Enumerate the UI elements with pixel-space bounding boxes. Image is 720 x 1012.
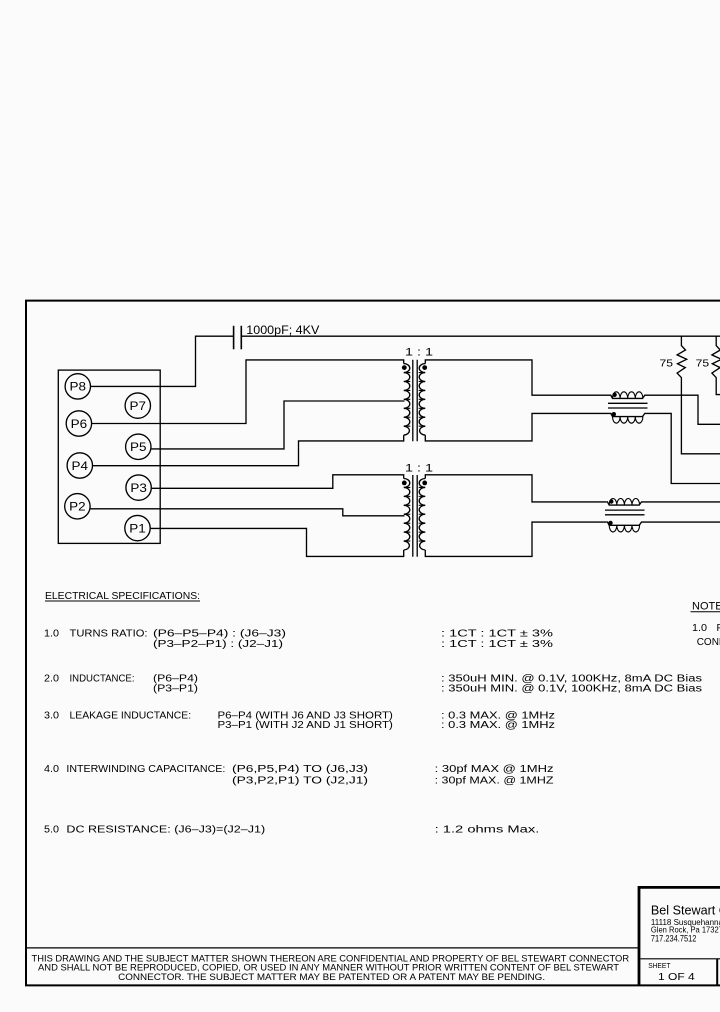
transformer T1 primary winding <box>404 364 410 436</box>
svg-text:CONNECT: CONNECT <box>697 637 720 648</box>
svg-text:5.0: 5.0 <box>44 825 59 836</box>
wire L1 bottom out with jog to right edge <box>647 413 720 483</box>
notes heading (clipped at right edge) <box>691 601 720 649</box>
wire L2 top out to right edge <box>644 501 720 503</box>
svg-text:PIN: PIN <box>717 623 720 634</box>
svg-text:DC RESISTANCE: (J6–J3)=(J2–J1): DC RESISTANCE: (J6–J3)=(J2–J1) <box>66 825 265 836</box>
disclaimer text <box>32 953 630 983</box>
svg-text:: 0.3 MAX. @ 1MHz: : 0.3 MAX. @ 1MHz <box>441 720 555 731</box>
connector J box <box>58 370 160 543</box>
wire T1 secondary top to output <box>425 360 610 395</box>
wire L1 top out with jog to right edge <box>647 395 720 424</box>
pin P5 <box>126 434 151 459</box>
sheet cell divider line <box>640 958 720 960</box>
svg-text:P3: P3 <box>130 483 147 495</box>
svg-text:: 30pf MAX. @ 1MHZ: : 30pf MAX. @ 1MHZ <box>435 776 554 787</box>
wire T2 secondary bottom to output <box>425 522 606 556</box>
svg-text:717.234.7512: 717.234.7512 <box>651 934 697 944</box>
choke L1 top dot <box>612 393 616 397</box>
wire P4 to T1 primary bottom <box>93 435 404 466</box>
sheet cell right divider <box>716 959 718 985</box>
wire T1 secondary bottom to output <box>425 413 610 441</box>
svg-text:ELECTRICAL SPECIFICATIONS:: ELECTRICAL SPECIFICATIONS: <box>45 591 200 602</box>
transformer T2 secondary polarity dot <box>422 481 427 486</box>
resistor R2 75 ohm <box>712 336 720 394</box>
wire L2 bottom out to right edge <box>644 521 720 523</box>
svg-text:: 1CT : 1CT ± 3%: : 1CT : 1CT ± 3% <box>441 628 553 639</box>
svg-text:INDUCTANCE:: INDUCTANCE: <box>70 673 135 684</box>
transformer T1 primary polarity dot <box>402 365 407 370</box>
svg-text:(P6,P5,P4) TO (J6,J3): (P6,P5,P4) TO (J6,J3) <box>232 764 368 775</box>
svg-text:P6: P6 <box>71 419 88 431</box>
svg-text:: 350uH MIN. @ 0.1V, 100KHz, 8: : 350uH MIN. @ 0.1V, 100KHz, 8mA DC Bias <box>441 684 702 695</box>
svg-text:INTERWINDING CAPACITANCE:: INTERWINDING CAPACITANCE: <box>66 764 225 775</box>
svg-text:LEAKAGE INDUCTANCE:: LEAKAGE INDUCTANCE: <box>70 711 192 722</box>
pin P1 <box>125 515 150 540</box>
svg-text:1.0: 1.0 <box>692 623 707 634</box>
choke L2 top dot <box>609 499 613 503</box>
common-mode choke L2 top winding <box>607 502 644 505</box>
choke L2 bottom winding <box>607 522 644 525</box>
choke L2 bottom dot <box>608 521 612 525</box>
wire P6 to T1 primary top <box>92 360 404 424</box>
svg-text:P3–P1 (WITH J2 AND J1 SHORT): P3–P1 (WITH J2 AND J1 SHORT) <box>218 720 393 731</box>
title block border (thick) <box>639 887 720 985</box>
svg-text:75: 75 <box>660 357 674 369</box>
svg-text:1 : 1: 1 : 1 <box>405 462 433 474</box>
capacitor C1 1000pF 4KV <box>234 326 242 350</box>
svg-text:CONNECTOR. THE SUBJECT MATTER: CONNECTOR. THE SUBJECT MATTER MAY BE PAT… <box>118 972 545 983</box>
svg-text:1 : 1: 1 : 1 <box>405 346 433 358</box>
wire P3 to T2 primary top <box>152 475 404 489</box>
svg-text:1000pF; 4KV: 1000pF; 4KV <box>246 325 319 337</box>
choke L1 core <box>608 403 648 408</box>
svg-text:2.0: 2.0 <box>44 673 59 684</box>
electrical specifications heading <box>44 591 702 836</box>
svg-text:1.0: 1.0 <box>44 628 59 639</box>
svg-text:: 1.2 ohms Max.: : 1.2 ohms Max. <box>435 825 540 836</box>
transformer T1 core <box>413 360 417 442</box>
transformer T2 primary polarity dot <box>402 481 407 486</box>
wire P8 to capacitor <box>91 336 233 386</box>
pin P8 <box>65 374 90 399</box>
svg-text:P4: P4 <box>72 461 89 473</box>
svg-text:P1: P1 <box>129 523 146 535</box>
pin P3 <box>126 475 151 500</box>
choke L2 core <box>605 510 645 515</box>
svg-text:: 30pf MAX @ 1MHz: : 30pf MAX @ 1MHz <box>435 764 554 775</box>
svg-text:P5: P5 <box>130 442 147 454</box>
svg-text:75: 75 <box>696 357 710 369</box>
transformer T1 secondary winding <box>419 364 425 436</box>
svg-text:1 OF 4: 1 OF 4 <box>658 972 695 983</box>
wire P5 to T1 center tap <box>151 401 404 449</box>
svg-text:P7: P7 <box>130 401 147 413</box>
wire T2 secondary top to output <box>425 475 606 502</box>
wire P2 to T2 center tap <box>91 509 405 516</box>
svg-text:P2: P2 <box>69 502 86 514</box>
svg-text:: 1CT : 1CT ± 3%: : 1CT : 1CT ± 3% <box>441 639 553 650</box>
transformer T1 secondary polarity dot <box>422 365 427 370</box>
choke L1 bottom winding <box>610 413 647 416</box>
svg-text:(P3–P2–P1) : (J2–J1): (P3–P2–P1) : (J2–J1) <box>153 639 283 650</box>
svg-text:NOTES:: NOTES: <box>692 601 720 613</box>
pin P6 <box>66 411 91 436</box>
svg-text:4.0: 4.0 <box>44 764 59 775</box>
common-mode choke L1 top winding <box>610 395 647 398</box>
svg-text:(P6–P5–P4) : (J6–J3): (P6–P5–P4) : (J6–J3) <box>153 628 286 639</box>
pin P7 <box>125 393 150 418</box>
bottom disclaimer band top line <box>25 947 639 949</box>
transformer T2 secondary winding <box>419 479 425 551</box>
svg-text:P8: P8 <box>70 382 87 394</box>
svg-text:(P3–P1): (P3–P1) <box>153 684 198 695</box>
transformer T2 primary winding <box>404 479 410 551</box>
transformer T2 core <box>413 475 417 557</box>
choke L1 bottom dot <box>612 412 616 416</box>
resistor R1 75 ohm <box>677 336 720 454</box>
pin P4 <box>67 453 92 478</box>
svg-text:(P3,P2,P1) TO (J2,J1): (P3,P2,P1) TO (J2,J1) <box>232 776 368 787</box>
svg-text:Bel Stewart Connector: Bel Stewart Connector <box>651 904 720 918</box>
svg-text:3.0: 3.0 <box>44 711 59 722</box>
svg-text:TURNS RATIO:: TURNS RATIO: <box>70 628 148 639</box>
pin P2 <box>65 494 90 519</box>
wire P1 to T2 primary bottom <box>151 528 404 556</box>
border frame <box>25 301 720 986</box>
svg-text:SHEET: SHEET <box>648 963 671 970</box>
wire capacitor to right edge <box>242 335 720 337</box>
